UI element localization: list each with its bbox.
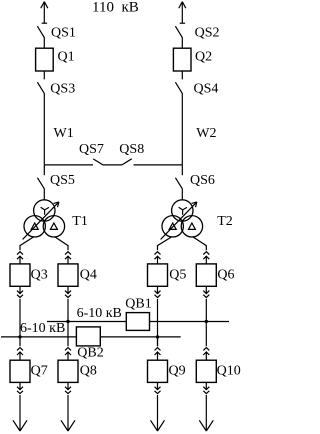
- wire T2 right leg: [193, 237, 207, 251]
- svg-text:6-10 кВ: 6-10 кВ: [77, 306, 122, 321]
- bus-tie breaker QB1: [126, 313, 149, 331]
- wire T1 left leg: [20, 237, 34, 251]
- bus 6-10 kV section 2 (lower): [1, 336, 181, 338]
- svg-text:QS4: QS4: [194, 82, 219, 97]
- svg-text:Q3: Q3: [31, 267, 48, 282]
- svg-text:Q8: Q8: [80, 364, 97, 379]
- bus 6-10 kV section 1 (upper): [47, 321, 229, 323]
- svg-text:Q10: Q10: [217, 364, 241, 379]
- wire 110kV bridge right segment: [134, 164, 183, 166]
- svg-text:Q7: Q7: [31, 364, 48, 379]
- svg-text:W2: W2: [196, 126, 216, 141]
- svg-text:Q6: Q6: [217, 267, 234, 282]
- svg-text:QS5: QS5: [50, 173, 75, 188]
- junction dot Q3/lower bus: [18, 335, 21, 338]
- junction dot Q5/lower bus: [156, 335, 159, 338]
- breaker Q4 (withdrawable): [58, 252, 78, 347]
- node W1 incoming line arrow: [41, 2, 48, 24]
- svg-text:T2: T2: [217, 214, 233, 229]
- svg-text:QB1: QB1: [125, 297, 151, 312]
- svg-text:Q1: Q1: [58, 49, 75, 64]
- feeder breaker Q8 (withdrawable): [58, 348, 78, 431]
- svg-text:QS3: QS3: [50, 82, 75, 97]
- svg-text:QB2: QB2: [77, 345, 103, 360]
- svg-text:QS2: QS2: [195, 25, 220, 40]
- breaker Q5 (withdrawable): [148, 252, 168, 347]
- breaker Q3 (withdrawable): [10, 252, 30, 337]
- disconnector QS5: [37, 165, 44, 200]
- disconnector QS8: [122, 159, 132, 165]
- svg-text:Q4: Q4: [80, 267, 97, 282]
- svg-text:QS8: QS8: [119, 142, 144, 157]
- disconnector QS6: [175, 165, 182, 200]
- wire T2 left leg: [158, 237, 173, 251]
- wire 110kV bridge left segment: [44, 164, 93, 166]
- svg-text:T1: T1: [72, 214, 88, 229]
- svg-text:Q2: Q2: [195, 49, 212, 64]
- disconnector QS1: [37, 26, 44, 48]
- node W2 incoming line arrow: [179, 2, 186, 24]
- feeder breaker Q9 (withdrawable): [148, 337, 168, 431]
- svg-text:Q9: Q9: [169, 364, 186, 379]
- svg-text:QS1: QS1: [51, 25, 76, 40]
- wire T1 right leg: [55, 237, 69, 251]
- disconnector QS3: [37, 71, 44, 165]
- disconnector QS4: [175, 71, 182, 165]
- disconnector QS2: [175, 26, 182, 48]
- feeder breaker Q7 (withdrawable): [10, 337, 30, 431]
- junction dot Q4/upper bus: [66, 320, 69, 323]
- junction dot Q6/upper bus: [205, 320, 208, 323]
- breaker Q6 (withdrawable): [196, 252, 216, 322]
- disconnector QS7: [93, 159, 122, 165]
- svg-text:QS7: QS7: [79, 142, 104, 157]
- breaker Q1: [36, 48, 54, 71]
- svg-text:110 кВ: 110 кВ: [92, 0, 139, 16]
- transformer T1: [23, 200, 65, 240]
- svg-text:6-10 кВ: 6-10 кВ: [20, 321, 65, 336]
- feeder breaker Q10 (withdrawable): [196, 322, 216, 432]
- svg-text:QS6: QS6: [190, 173, 215, 188]
- svg-text:W1: W1: [54, 126, 74, 141]
- svg-text:Q5: Q5: [169, 267, 186, 282]
- transformer T2: [161, 200, 203, 240]
- bus-tie breaker QB2: [76, 327, 100, 346]
- breaker Q2: [173, 48, 191, 71]
